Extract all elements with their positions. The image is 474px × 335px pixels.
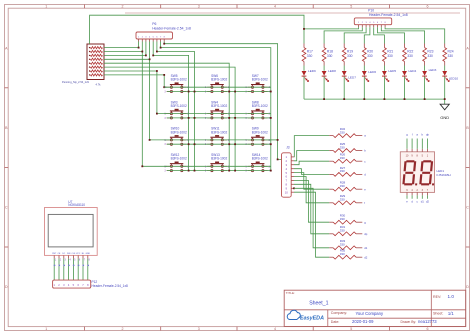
svg-text:1: 1 bbox=[45, 327, 47, 331]
svg-text:1.0: 1.0 bbox=[448, 294, 455, 299]
resistor R29 bbox=[329, 194, 365, 205]
header J3 bbox=[282, 146, 295, 198]
wire RN1 line6 to column bus 2b bbox=[104, 67, 235, 171]
wire P10 pin8 to LED column 8 bbox=[385, 27, 445, 43]
wire P10 pin5 to LED column 5 bbox=[374, 27, 385, 43]
svg-text:4.7k: 4.7k bbox=[96, 82, 102, 86]
wire R17 to LED9 bbox=[303, 66, 305, 71]
svg-text:5: 5 bbox=[350, 327, 352, 331]
svg-text:dp: dp bbox=[426, 132, 430, 136]
svg-text:Company:: Company: bbox=[331, 311, 347, 315]
svg-text:TITLE:: TITLE: bbox=[286, 291, 295, 295]
resistor R20 bbox=[362, 44, 373, 66]
svg-text:330: 330 bbox=[340, 229, 345, 233]
svg-text:NOKIA5110: NOKIA5110 bbox=[68, 203, 85, 207]
svg-text:LED3: LED3 bbox=[429, 68, 437, 72]
wire R19 to LED7 bbox=[343, 66, 345, 71]
svg-text:3: 3 bbox=[198, 327, 200, 331]
switch SW7 bbox=[245, 74, 270, 94]
wire RN1 line2 to P6 pin2 and row 4 feed bbox=[104, 42, 167, 168]
wire J3 pin1 to R32 bbox=[294, 136, 329, 157]
wire J3 pin4 to R27 bbox=[294, 169, 329, 175]
svg-text:4: 4 bbox=[274, 5, 276, 9]
wire U7 pin2 to P12 bbox=[59, 259, 61, 281]
wire P6 pin5 to column bus 1a bbox=[152, 42, 188, 171]
resistor R26 bbox=[329, 153, 366, 164]
wire RN1 line1 to P6 pin1 bbox=[104, 42, 140, 49]
switch SW9 bbox=[245, 127, 270, 147]
svg-text:6: 6 bbox=[427, 327, 429, 331]
svg-text:B3FS-1002: B3FS-1002 bbox=[252, 104, 268, 108]
wire LED4 to ground rail bbox=[404, 76, 406, 99]
svg-text:D: D bbox=[5, 285, 8, 289]
wire U7 pin7 to P12 bbox=[83, 259, 85, 281]
wire U7 pin1 to P12 bbox=[54, 259, 56, 281]
resistor R27 bbox=[329, 166, 366, 177]
LED LED9 bbox=[302, 69, 316, 82]
svg-text:2: 2 bbox=[122, 327, 124, 331]
wire R23 to LED3 bbox=[424, 66, 426, 71]
svg-text:Sheet_1: Sheet_1 bbox=[309, 301, 328, 307]
svg-text:2: 2 bbox=[122, 5, 124, 9]
svg-text:330: 330 bbox=[347, 54, 353, 58]
svg-text:330: 330 bbox=[340, 145, 345, 149]
svg-text:330: 330 bbox=[387, 54, 393, 58]
wire U7 pin4 to P12 bbox=[68, 259, 70, 281]
LED LED8 bbox=[322, 69, 336, 82]
resistor R35 bbox=[329, 249, 367, 260]
wire LED5 to ground rail bbox=[383, 76, 385, 99]
wire row bus 1 bottom bbox=[167, 91, 272, 93]
wire P10 pin7 to LED column 7 bbox=[381, 27, 424, 43]
wire row bus 2 top bbox=[164, 113, 271, 115]
svg-text:nea12773: nea12773 bbox=[418, 319, 437, 324]
svg-text:Header-Female-2.54_1x8: Header-Female-2.54_1x8 bbox=[152, 26, 191, 30]
wire P6 pin8 to column bus 3b and J3 bbox=[163, 42, 281, 161]
wire LED8 to ground rail bbox=[323, 76, 325, 99]
svg-text:330: 330 bbox=[340, 130, 345, 134]
svg-text:B3FS-1002: B3FS-1002 bbox=[171, 130, 187, 134]
svg-text:330: 330 bbox=[340, 198, 345, 202]
svg-text:6: 6 bbox=[427, 5, 429, 9]
svg-text:B3FS-1002: B3FS-1002 bbox=[211, 104, 227, 108]
svg-text:3: 3 bbox=[198, 5, 200, 9]
svg-text:Header-Female-2.54_1x8: Header-Female-2.54_1x8 bbox=[92, 284, 129, 288]
wire U7 pin8 to P12 bbox=[87, 259, 89, 281]
switch SW13 bbox=[205, 153, 230, 173]
wire U7 pin5 to P12 bbox=[73, 259, 75, 281]
svg-text:B3FS-1002: B3FS-1002 bbox=[252, 78, 268, 82]
wire R18 to LED8 bbox=[323, 66, 325, 71]
svg-text:B3FS-1002: B3FS-1002 bbox=[252, 157, 268, 161]
wire J3 pin9 to R33 bbox=[294, 188, 329, 248]
svg-text:C: C bbox=[5, 206, 8, 210]
svg-text:GND: GND bbox=[440, 115, 449, 120]
svg-text:LED5: LED5 bbox=[388, 69, 396, 73]
LED LED7 bbox=[342, 71, 356, 82]
svg-text:LED8: LED8 bbox=[328, 69, 336, 73]
resistor R23 bbox=[423, 44, 434, 66]
svg-text:B3FS-1002: B3FS-1002 bbox=[171, 157, 187, 161]
wire row bus 1 top bbox=[164, 86, 271, 88]
svg-text:LED9: LED9 bbox=[308, 69, 316, 73]
switch SW14 bbox=[245, 153, 270, 173]
switch SW11 bbox=[205, 127, 230, 147]
svg-text:2020-01-09: 2020-01-09 bbox=[352, 319, 374, 324]
wire J3 pin5 to R28 bbox=[294, 173, 329, 190]
svg-text:B3FS-1002: B3FS-1002 bbox=[211, 130, 227, 134]
EasyEDA logo bbox=[287, 310, 324, 321]
wire RN1 line8 to row 1 feed bbox=[104, 74, 167, 88]
svg-text:DIN: DIN bbox=[67, 253, 71, 255]
resistor R22 bbox=[403, 44, 414, 66]
svg-text:330: 330 bbox=[367, 54, 373, 58]
wire P10 pin1 to LED column 1 bbox=[303, 27, 358, 43]
wire P10 pin3 to LED column 3 bbox=[344, 27, 366, 43]
svg-text:LED6: LED6 bbox=[368, 70, 376, 74]
resistor R32 bbox=[329, 127, 366, 138]
svg-text:330: 330 bbox=[340, 184, 345, 188]
svg-text:LED4: LED4 bbox=[409, 69, 417, 73]
wire P6 pin7 to column bus 3a bbox=[160, 42, 271, 171]
wire VCC top rail bbox=[125, 12, 460, 14]
svg-text:10: 10 bbox=[285, 190, 289, 194]
svg-text:d1: d1 bbox=[364, 246, 368, 250]
wire RN1 line3 to P6 pin3 bbox=[104, 42, 147, 57]
wire SW9 to column bus 3b bbox=[268, 139, 279, 141]
switch SW5 bbox=[164, 74, 189, 94]
wire J3 pin10 to R35 bbox=[294, 192, 329, 257]
svg-text:d2: d2 bbox=[426, 199, 430, 203]
wire J3 pin3 to R26 bbox=[294, 161, 329, 165]
header P10 bbox=[354, 9, 407, 28]
wire U7 pin6 to P12 bbox=[78, 259, 80, 281]
svg-text:330: 330 bbox=[448, 54, 454, 58]
wire J3 pin2 to R25 bbox=[294, 151, 329, 161]
svg-text:J3: J3 bbox=[286, 146, 290, 150]
switch SW6 bbox=[205, 74, 230, 94]
wire P10 pin4 to LED column 4 bbox=[364, 27, 370, 43]
wire row bus 4 top bbox=[164, 165, 271, 167]
wire J3 pin6 to R29 bbox=[294, 177, 329, 203]
wire LED3 to ground rail bbox=[424, 76, 426, 99]
wire P10 pin6 to LED column 6 bbox=[378, 27, 405, 43]
resistor R30 bbox=[329, 214, 366, 225]
resistor R18 bbox=[322, 44, 333, 66]
svg-text:GND: GND bbox=[86, 253, 91, 255]
wire RN1 line4 to P6 pin4 and row 3 feed bbox=[104, 42, 167, 141]
LED LED4 bbox=[402, 69, 416, 82]
resistor R21 bbox=[383, 44, 394, 66]
wire RN1 line7 to row 2 feed bbox=[104, 70, 167, 114]
resistor R28 bbox=[329, 181, 366, 192]
wire R22 to LED4 bbox=[404, 66, 406, 71]
svg-text:Header-Female-2.54_1x8: Header-Female-2.54_1x8 bbox=[369, 13, 408, 17]
title block bbox=[284, 290, 466, 326]
wire J3 pin7 to R30 bbox=[294, 180, 329, 222]
header P6 bbox=[136, 22, 191, 42]
wire row bus 3 bottom bbox=[167, 143, 272, 145]
wire R24 to LED10 bbox=[444, 66, 446, 71]
resistor network RN1 bbox=[62, 44, 104, 86]
ground GND bbox=[440, 104, 449, 120]
svg-text:B3FS-1002: B3FS-1002 bbox=[211, 78, 227, 82]
svg-text:330: 330 bbox=[340, 156, 345, 160]
svg-text:330: 330 bbox=[427, 54, 433, 58]
svg-text:330: 330 bbox=[340, 243, 345, 247]
resistor R24 bbox=[443, 44, 454, 66]
wire R21 to LED5 bbox=[383, 66, 385, 71]
svg-text:VCC: VCC bbox=[76, 253, 81, 255]
LCD module U7 bbox=[45, 200, 98, 262]
svg-text:B3FS-1002: B3FS-1002 bbox=[211, 157, 227, 161]
wire LED7 to ground rail bbox=[343, 76, 345, 99]
svg-text:d2: d2 bbox=[364, 255, 368, 259]
switch SW12 bbox=[164, 153, 189, 173]
LED LED6 bbox=[362, 70, 376, 81]
wire P6 pin6 to column bus 1b bbox=[156, 42, 195, 171]
svg-text:LED7: LED7 bbox=[348, 76, 356, 80]
header P12 bbox=[53, 280, 128, 288]
wire LED6 to ground rail bbox=[363, 76, 365, 99]
switch SW10 bbox=[164, 127, 189, 147]
resistor R31 bbox=[329, 225, 367, 236]
svg-text:B3FS-1002: B3FS-1002 bbox=[252, 130, 268, 134]
wire U7 pin3 to P12 bbox=[63, 259, 65, 281]
switch SW4 bbox=[205, 100, 230, 120]
svg-text:330: 330 bbox=[407, 54, 413, 58]
svg-text:B3FS-1002: B3FS-1002 bbox=[171, 78, 187, 82]
svg-text:1: 1 bbox=[45, 5, 47, 9]
switch SW3 bbox=[164, 100, 189, 120]
svg-text:Sheet:: Sheet: bbox=[433, 312, 443, 316]
resistor R17 bbox=[302, 44, 313, 66]
LED LED3 bbox=[422, 68, 436, 82]
svg-text:REV:: REV: bbox=[433, 295, 441, 299]
svg-text:B3FS-1002: B3FS-1002 bbox=[171, 104, 187, 108]
svg-text:d1: d1 bbox=[421, 199, 425, 203]
svg-text:D: D bbox=[466, 285, 469, 289]
svg-text:Date:: Date: bbox=[331, 320, 340, 324]
svg-text:dp: dp bbox=[364, 232, 368, 236]
svg-text:C: C bbox=[466, 206, 469, 210]
LED LED10 bbox=[442, 71, 458, 82]
wire RN1 common to column 1 bbox=[90, 15, 304, 44]
svg-text:LED10: LED10 bbox=[449, 77, 459, 81]
resistor R25 bbox=[329, 142, 366, 153]
svg-text:330: 330 bbox=[340, 169, 345, 173]
wire J3 pin8 to R31 bbox=[294, 184, 329, 234]
svg-text:Drawn By:: Drawn By: bbox=[401, 320, 417, 324]
wire row bus 3 top bbox=[164, 139, 271, 141]
wire rail to ground bbox=[444, 98, 446, 104]
wire R20 to LED6 bbox=[363, 66, 365, 71]
svg-text:Your Company: Your Company bbox=[356, 311, 384, 316]
wire RN1 line5 to column bus 2a bbox=[104, 63, 229, 170]
svg-text:1/1: 1/1 bbox=[448, 311, 454, 316]
svg-text:4: 4 bbox=[274, 327, 276, 331]
svg-text:Penning_Sip_2.54_1x9: Penning_Sip_2.54_1x9 bbox=[62, 80, 89, 84]
wire LED9 to ground rail bbox=[303, 76, 305, 99]
wire row bus 2 bottom bbox=[167, 117, 272, 119]
svg-text:330: 330 bbox=[340, 252, 345, 256]
wire LED10 to ground rail bbox=[444, 76, 446, 99]
wire ground rail bbox=[304, 98, 445, 100]
resistor R33 bbox=[329, 239, 367, 250]
svg-text:330: 330 bbox=[340, 217, 345, 221]
svg-text:EasyEDA: EasyEDA bbox=[300, 316, 324, 322]
wire row bus 4 bottom bbox=[167, 170, 272, 172]
svg-text:330: 330 bbox=[307, 54, 313, 58]
svg-text:FJ5161BH: FJ5161BH bbox=[437, 173, 451, 177]
display LED1 dual 7-segment bbox=[400, 132, 450, 203]
svg-text:5: 5 bbox=[350, 5, 352, 9]
wire P10 pin2 to LED column 2 bbox=[324, 27, 362, 43]
resistor R19 bbox=[342, 44, 353, 66]
switch SW8 bbox=[245, 100, 270, 120]
svg-text:330: 330 bbox=[327, 54, 333, 58]
LED LED5 bbox=[382, 69, 396, 82]
